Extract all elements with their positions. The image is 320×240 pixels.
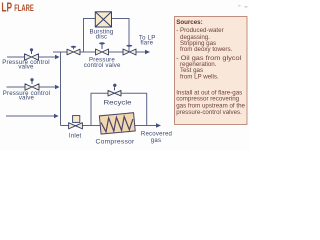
bursting disc D1: [95, 12, 111, 27]
faint crop specks top-right: [238, 5, 241, 7]
wire: bottom line to recovered gas: [61, 125, 158, 127]
wire: recycle loop: [91, 93, 147, 125]
svg-text:from deoxy towers.: from deoxy towers.: [180, 46, 233, 53]
wire: bursting-disc bypass loop: [84, 19, 130, 53]
svg-text:gas: gas: [151, 137, 161, 144]
svg-text:valve: valve: [18, 63, 34, 70]
wire: feed line 1: [7, 56, 56, 58]
valve recycle: [108, 84, 121, 96]
valve V2 pressure control (feed 2): [25, 78, 39, 90]
svg-text:valve: valve: [19, 94, 35, 101]
svg-text:flare: flare: [140, 40, 153, 47]
valve V1 pressure control (feed 1): [25, 48, 39, 60]
wire: header vertical: [60, 52, 62, 126]
svg-text:LP: LP: [1, 0, 12, 15]
svg-text:from LP wells.: from LP wells.: [180, 73, 219, 80]
svg-text:Recycle: Recycle: [104, 99, 133, 106]
svg-text:FLARE: FLARE: [14, 2, 34, 13]
svg-text:Inlet: Inlet: [69, 132, 82, 139]
wire: feed line 2: [7, 86, 57, 88]
svg-text:Sources:: Sources:: [176, 19, 202, 26]
valve VC on main line: [123, 45, 136, 55]
svg-text:disc: disc: [96, 34, 108, 41]
wire: feed line 3: [6, 115, 55, 117]
svg-text:control valve: control valve: [84, 62, 121, 69]
wire: main line to LP flare: [53, 51, 146, 53]
valve VB pressure control on main line: [96, 42, 109, 55]
sources note box: [175, 17, 248, 125]
valve VA on main line: [67, 46, 80, 55]
valve inlet: [69, 116, 83, 129]
svg-text:pressure-control valves.: pressure-control valves.: [176, 109, 242, 116]
svg-text:- Produced-water: - Produced-water: [176, 27, 223, 34]
compressor: [99, 113, 135, 134]
svg-text:Compressor: Compressor: [96, 138, 135, 145]
